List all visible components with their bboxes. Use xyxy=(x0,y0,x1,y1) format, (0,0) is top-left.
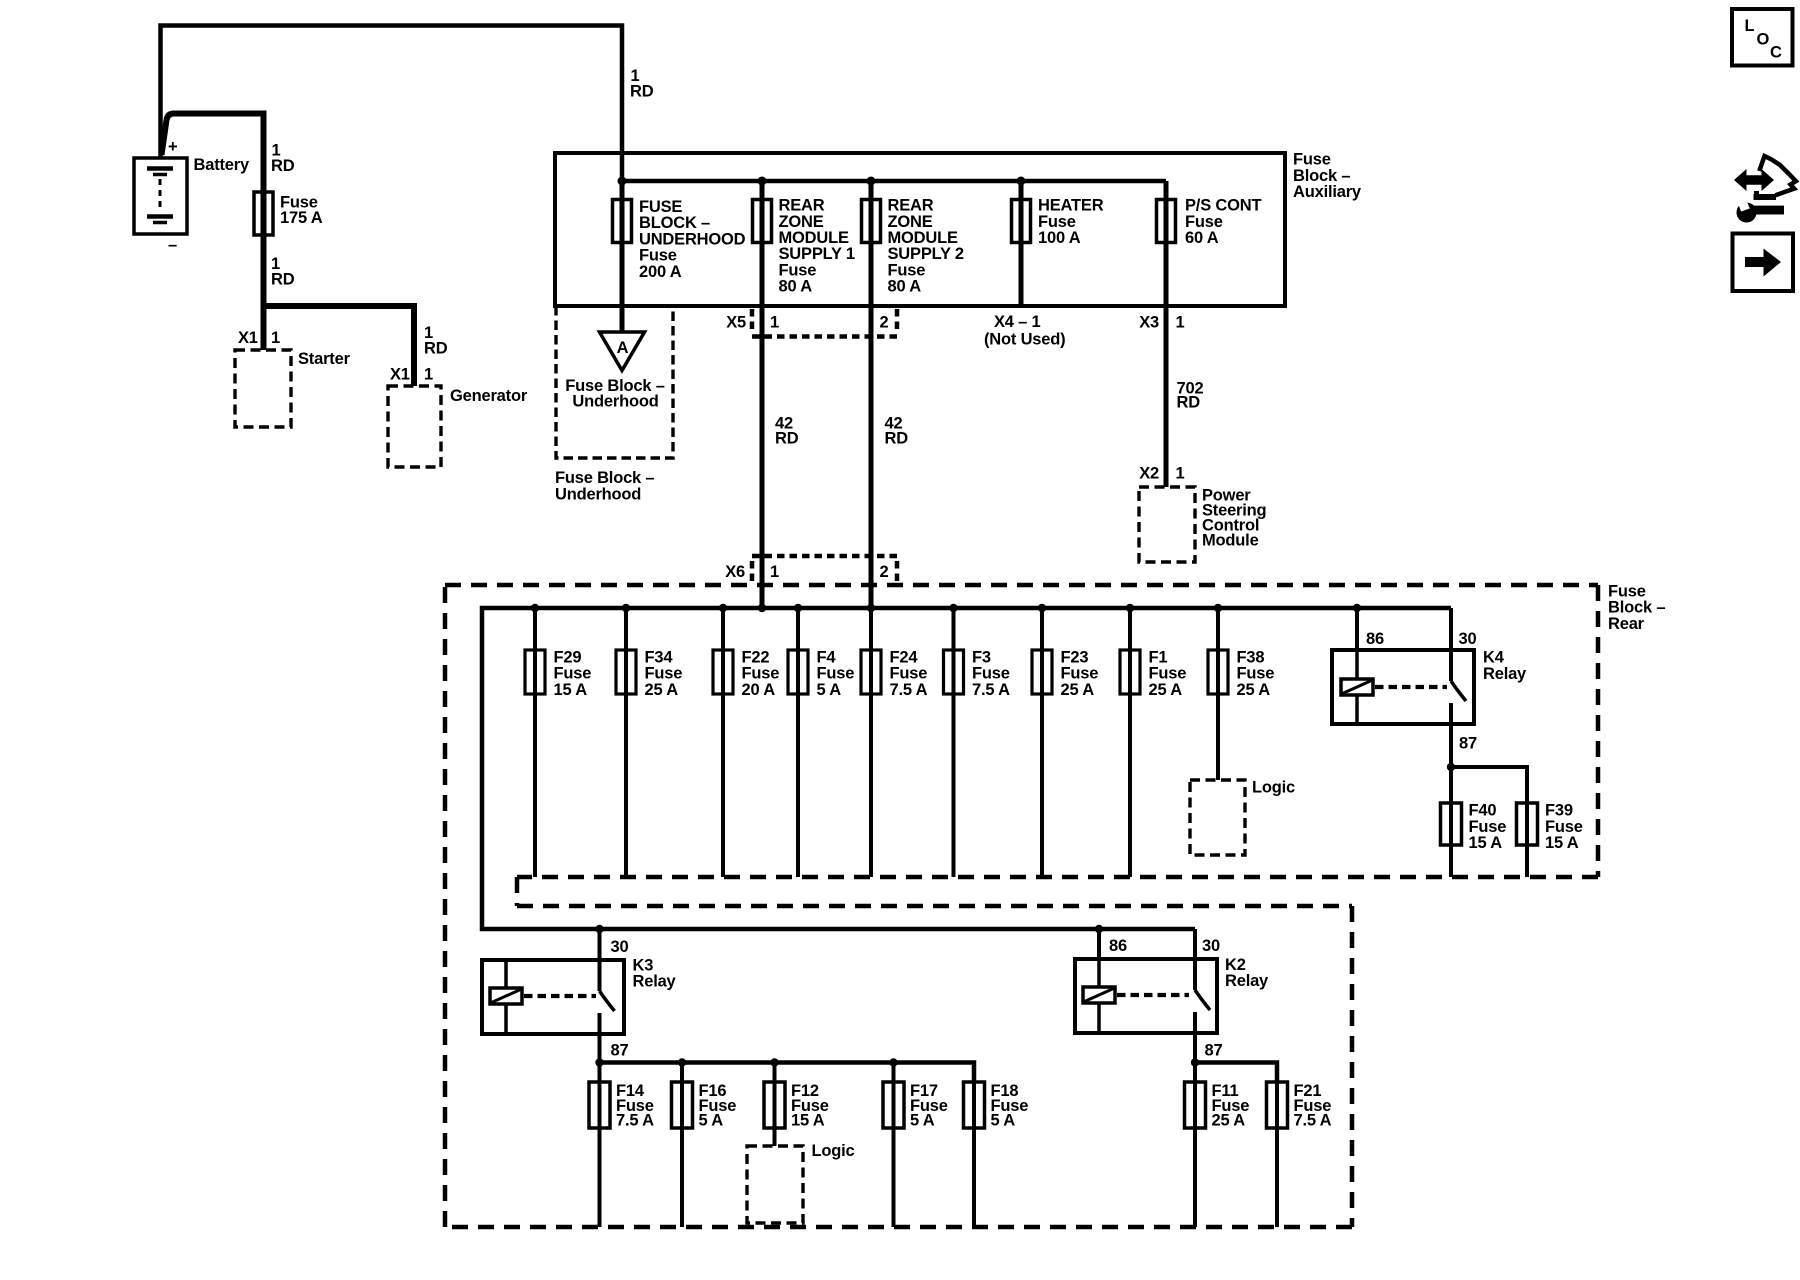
svg-text:1: 1 xyxy=(1176,465,1185,483)
fuse F4 5 A xyxy=(788,608,808,877)
connector X5 labels xyxy=(726,314,888,332)
fuse F12 15 A xyxy=(764,1063,785,1147)
relay K3 xyxy=(482,929,624,1063)
auxiliary internal bus xyxy=(622,179,1166,184)
junction dot rear bus at F22 xyxy=(719,604,727,612)
junction dot relay bus at K2 86 xyxy=(1095,925,1103,933)
svg-text:87: 87 xyxy=(1205,1042,1223,1060)
fuse F11 25 A xyxy=(1185,1063,1206,1228)
fuse F38 25 A xyxy=(1208,608,1228,780)
junction dot rear bus at F4 xyxy=(794,604,802,612)
wire label 1 RD below fuse xyxy=(271,255,295,289)
label fuse F17 xyxy=(910,1082,948,1129)
fuse FUSE BLOCK UNDERHOOD 200 A xyxy=(613,181,632,332)
label fuse F18 xyxy=(991,1082,1029,1129)
connector X4 not used label xyxy=(984,313,1065,349)
fuse F29 15 A xyxy=(525,608,545,877)
svg-text:Logic: Logic xyxy=(1252,778,1295,796)
svg-text:Logic: Logic xyxy=(812,1142,855,1160)
svg-text:87: 87 xyxy=(611,1042,629,1060)
label fuse F22 xyxy=(742,649,780,699)
svg-text:RD: RD xyxy=(271,271,295,289)
wire relay K3 87 bus xyxy=(600,1063,975,1083)
svg-text:C: C xyxy=(1770,43,1782,61)
svg-text:25 A: 25 A xyxy=(1149,681,1183,699)
label fuse F34 xyxy=(645,649,683,699)
label fuse F23 xyxy=(1061,649,1099,699)
wire label 1 RD battery feed xyxy=(271,142,295,176)
svg-text:5 A: 5 A xyxy=(991,1111,1016,1129)
svg-text:1: 1 xyxy=(770,314,779,332)
svg-text:7.5 A: 7.5 A xyxy=(890,681,928,699)
connector X3 labels xyxy=(1139,314,1184,332)
svg-text:86: 86 xyxy=(1366,630,1384,648)
svg-text:15 A: 15 A xyxy=(791,1111,825,1129)
svg-text:200 A: 200 A xyxy=(639,263,682,281)
svg-text:7.5 A: 7.5 A xyxy=(1294,1111,1332,1129)
svg-text:5 A: 5 A xyxy=(699,1111,724,1129)
label rear zone module supply 1 xyxy=(779,197,855,296)
fuse F16 5 A xyxy=(672,1063,693,1228)
label fuse F4 xyxy=(817,649,855,699)
svg-text:25 A: 25 A xyxy=(1212,1111,1246,1129)
fuse F21 7.5 A xyxy=(1267,1082,1288,1227)
junction dot lower bus at F17 xyxy=(889,1058,897,1066)
svg-text:175 A: 175 A xyxy=(280,209,323,227)
connector X5 xyxy=(752,309,897,337)
junction dot rear bus at F38 xyxy=(1214,604,1222,612)
svg-text:30: 30 xyxy=(611,938,629,956)
connector X6 xyxy=(752,556,897,581)
svg-text:7.5 A: 7.5 A xyxy=(972,681,1010,699)
svg-text:+: + xyxy=(168,138,177,156)
label power steering control module xyxy=(1202,487,1266,550)
svg-text:RD: RD xyxy=(630,83,654,101)
logic box lower xyxy=(747,1146,803,1223)
junction dot bus at supply 2 xyxy=(867,177,876,186)
svg-text:80 A: 80 A xyxy=(779,278,813,296)
junction dot lower bus at F16 xyxy=(678,1058,686,1066)
svg-text:15 A: 15 A xyxy=(1545,834,1579,852)
svg-text:86: 86 xyxy=(1109,937,1127,955)
svg-text:X6: X6 xyxy=(725,563,745,581)
svg-text:X4 – 1: X4 – 1 xyxy=(994,313,1041,331)
interchange outline arrow icon xyxy=(1754,156,1796,197)
wire label 702 RD xyxy=(1177,380,1204,412)
svg-text:1: 1 xyxy=(1176,314,1185,332)
label fuse F1 xyxy=(1149,649,1187,699)
fuse rear zone module supply 1 80 A xyxy=(753,181,772,608)
wire branch to generator xyxy=(264,306,415,386)
wire label 42 RD supply 2 xyxy=(885,415,909,448)
label heater fuse 100 A xyxy=(1038,197,1104,247)
relay K3 labels xyxy=(611,938,677,1060)
svg-text:1: 1 xyxy=(424,366,433,384)
forward arrow icon box xyxy=(1733,234,1794,292)
label fuse block underhood inside xyxy=(565,377,664,411)
fuse F17 5 A xyxy=(883,1063,904,1228)
junction dot rear bus at F34 xyxy=(622,604,630,612)
wire battery positive to top bus feeding fuse block auxiliary xyxy=(161,26,623,182)
label fuse block auxiliary xyxy=(1293,151,1362,201)
fuse F22 20 A xyxy=(713,608,733,877)
junction dot bus at supply 1 xyxy=(758,177,767,186)
battery xyxy=(134,138,187,254)
fuse F3 7.5 A xyxy=(944,608,964,877)
svg-text:A: A xyxy=(617,339,629,357)
starter xyxy=(235,350,291,427)
connector X1 labels at starter xyxy=(238,329,280,347)
svg-text:RD: RD xyxy=(271,157,295,175)
fuse heater 100 A xyxy=(1012,181,1031,306)
fuse F24 7.5 A xyxy=(861,608,881,877)
svg-text:2: 2 xyxy=(880,314,889,332)
relay K4 labels xyxy=(1366,630,1527,753)
fuse block auxiliary box xyxy=(555,153,1285,306)
svg-text:Generator: Generator xyxy=(450,387,528,405)
svg-text:X2: X2 xyxy=(1139,465,1159,483)
relay K2 labels xyxy=(1109,937,1269,1060)
svg-text:O: O xyxy=(1757,30,1770,48)
relay K2 xyxy=(1075,929,1217,1063)
svg-text:X1: X1 xyxy=(390,366,410,384)
junction dot rear bus at F24 xyxy=(867,604,875,612)
LOC icon box xyxy=(1732,9,1793,66)
label fuse F14 xyxy=(616,1082,654,1129)
label fuse F3 xyxy=(972,649,1010,699)
power steering control module xyxy=(1139,487,1195,562)
svg-text:25 A: 25 A xyxy=(1061,681,1095,699)
fuse F40 15 A xyxy=(1441,767,1462,877)
label fuse 175 A xyxy=(280,194,323,228)
svg-text:25 A: 25 A xyxy=(645,681,679,699)
svg-text:7.5 A: 7.5 A xyxy=(616,1111,654,1129)
svg-text:80 A: 80 A xyxy=(888,278,922,296)
label fuse F38 xyxy=(1237,649,1275,699)
wire K4 87 to F39 xyxy=(1451,767,1527,803)
fuse F1 25 A xyxy=(1120,608,1140,877)
svg-text:87: 87 xyxy=(1459,735,1477,753)
svg-text:15 A: 15 A xyxy=(1469,834,1503,852)
junction dot bus at fuse 200 A xyxy=(618,177,627,186)
svg-text:2: 2 xyxy=(880,563,889,581)
svg-text:Relay: Relay xyxy=(1483,665,1527,683)
svg-text:RD: RD xyxy=(1177,394,1201,412)
generator xyxy=(388,386,441,467)
svg-text:RD: RD xyxy=(885,430,909,448)
junction dot rear bus at F23 xyxy=(1038,604,1046,612)
fuse F34 25 A xyxy=(616,608,636,877)
svg-text:Relay: Relay xyxy=(1225,972,1269,990)
label fuse F24 xyxy=(890,649,928,699)
junction dot relay K4 87 xyxy=(1447,763,1455,771)
junction dot lower bus at K3 87 xyxy=(595,1058,603,1066)
junction dot rear bus at F29 xyxy=(531,604,539,612)
wrench icon xyxy=(1737,202,1785,223)
label fuse block underhood below xyxy=(555,469,654,504)
junction dot rear bus at relay K4 pin 86 wire xyxy=(1353,604,1361,612)
connector X2 labels xyxy=(1139,465,1184,483)
junction dot lower bus at K2 87 xyxy=(1191,1058,1199,1066)
label fuse F39 xyxy=(1545,802,1583,852)
svg-text:L: L xyxy=(1745,17,1755,35)
fuse 175 A xyxy=(254,192,273,235)
svg-text:100 A: 100 A xyxy=(1038,229,1081,247)
logic box rear fuse block xyxy=(1190,780,1245,855)
wire label 1 RD top feed xyxy=(630,67,654,101)
connector X1 labels at generator xyxy=(390,366,433,384)
fuse p/s cont 60 A xyxy=(1157,181,1176,487)
fuse F23 25 A xyxy=(1032,608,1052,877)
junction dot rear bus at F1 xyxy=(1126,604,1134,612)
wire K2 30 from bus xyxy=(1193,929,1197,959)
svg-text:Fuse Block –: Fuse Block – xyxy=(555,469,654,487)
svg-text:30: 30 xyxy=(1459,630,1477,648)
fuse block underhood dashed box xyxy=(556,306,673,458)
circuit continuation triangle A xyxy=(600,332,645,371)
svg-text:Rear: Rear xyxy=(1608,615,1645,633)
svg-text:60 A: 60 A xyxy=(1185,229,1219,247)
svg-text:Underhood: Underhood xyxy=(572,392,658,410)
svg-text:Auxiliary: Auxiliary xyxy=(1293,183,1362,201)
svg-text:30: 30 xyxy=(1202,937,1220,955)
svg-text:X5: X5 xyxy=(726,314,746,332)
label fuse F12 xyxy=(791,1082,829,1129)
svg-text:5 A: 5 A xyxy=(817,681,842,699)
wire relay K2 87 bus xyxy=(1195,1063,1277,1083)
junction dot rear bus at F3 xyxy=(949,604,957,612)
junction dot lower bus at F12 xyxy=(770,1058,778,1066)
label fuse F16 xyxy=(699,1082,737,1129)
svg-text:1: 1 xyxy=(271,329,280,347)
svg-text:Battery: Battery xyxy=(194,156,250,174)
fuse rear zone module supply 2 80 A xyxy=(862,181,881,608)
svg-text:X1: X1 xyxy=(238,329,258,347)
fuse block rear dashed box xyxy=(445,585,1598,1227)
svg-text:Starter: Starter xyxy=(298,350,351,368)
label fuse F40 xyxy=(1469,802,1507,852)
svg-text:Underhood: Underhood xyxy=(555,485,641,503)
rear bus with left drop to relay bus xyxy=(482,608,1451,929)
wire battery to fuse 175 A down to starter xyxy=(162,114,264,351)
relay K4 xyxy=(1332,608,1474,767)
svg-text:25 A: 25 A xyxy=(1237,681,1271,699)
svg-text:–: – xyxy=(168,236,177,254)
junction dot relay bus at K3 30 xyxy=(595,925,603,933)
interchange double arrow icon xyxy=(1734,169,1774,191)
wire label 1 RD generator feed xyxy=(424,324,448,358)
label fuse block underhood 200 A xyxy=(639,198,746,281)
wire label 42 RD supply 1 xyxy=(775,415,799,448)
svg-text:RD: RD xyxy=(424,340,448,358)
label fuse F11 xyxy=(1212,1082,1250,1129)
junction dot bus at heater fuse xyxy=(1017,177,1026,186)
fuse F18 5 A xyxy=(964,1082,985,1227)
label fuse F29 xyxy=(554,649,592,699)
label p/s cont fuse 60 A xyxy=(1185,197,1261,247)
label fuse F21 xyxy=(1294,1082,1332,1129)
svg-text:5 A: 5 A xyxy=(910,1111,935,1129)
svg-text:RD: RD xyxy=(775,430,799,448)
label rear zone module supply 2 xyxy=(888,197,964,296)
svg-text:1: 1 xyxy=(770,563,779,581)
svg-text:Relay: Relay xyxy=(633,973,677,991)
fuse F39 15 A xyxy=(1517,803,1538,877)
fuse F14 7.5 A xyxy=(589,1063,610,1228)
svg-text:15 A: 15 A xyxy=(554,681,588,699)
label fuse block rear xyxy=(1608,583,1665,633)
connector X6 labels xyxy=(725,563,888,581)
svg-text:20 A: 20 A xyxy=(742,681,776,699)
svg-text:Module: Module xyxy=(1202,532,1259,550)
svg-text:X3: X3 xyxy=(1139,314,1159,332)
svg-text:(Not Used): (Not Used) xyxy=(984,331,1065,349)
junction dot rear bus at X6 pin 1 wire xyxy=(758,604,766,612)
